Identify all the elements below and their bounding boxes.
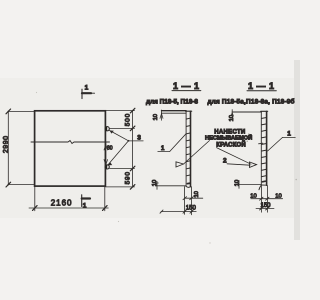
left bar hatch rungs <box>187 118 191 183</box>
svg-text:10: 10 <box>250 194 256 200</box>
left section bottom-left dimension 10 <box>156 181 187 189</box>
svg-text:для П18-5, П18-8: для П18-5, П18-8 <box>146 98 198 105</box>
left section dimension 150 <box>160 210 196 213</box>
svg-text:1: 1 <box>287 130 291 137</box>
svg-text:1: 1 <box>85 85 89 92</box>
left section top dimension 10 <box>160 110 186 120</box>
leader label 3 <box>108 130 144 165</box>
svg-text:2: 2 <box>223 157 227 164</box>
right bar hatch rungs <box>262 118 266 182</box>
left section dimension 10 lower right <box>183 197 203 200</box>
leader note to left flag <box>184 141 210 165</box>
svg-text:10: 10 <box>275 194 281 200</box>
svg-text:1 — 1: 1 — 1 <box>173 81 200 91</box>
svg-text:для П18-5а,П18-8а, П18-9б: для П18-5а,П18-8а, П18-9б <box>208 98 295 106</box>
panel outline <box>35 111 106 186</box>
section mark 1 top <box>82 89 95 98</box>
dimension 2990 <box>6 109 35 187</box>
scan specks <box>36 92 297 244</box>
right section top dimension 10 <box>231 110 261 117</box>
left section below-bar extension lines <box>185 187 192 215</box>
right section below-bar extension lines <box>261 185 267 212</box>
right section leader label 1 <box>268 138 296 152</box>
dimension chain 500/590 right <box>105 108 134 189</box>
dimension 2160 <box>29 187 108 211</box>
svg-text:КРАСКОЙ: КРАСКОЙ <box>216 140 246 148</box>
dimension 80 <box>104 142 108 167</box>
left section bar (panel edge profile) <box>186 111 192 187</box>
right section bar (panel edge profile) <box>259 111 268 189</box>
right bar mid tick <box>259 142 263 145</box>
svg-text:10: 10 <box>153 114 159 120</box>
svg-text:10: 10 <box>194 191 200 197</box>
svg-text:3: 3 <box>137 134 141 141</box>
weld flag left bar <box>176 162 184 167</box>
svg-text:590: 590 <box>124 171 131 184</box>
svg-text:НЕСМЫВАЕМОЙ: НЕСМЫВАЕМОЙ <box>205 134 252 142</box>
right section dimension 150 <box>256 207 274 210</box>
lifting loop bottom <box>105 165 109 169</box>
weld flag right bar <box>250 162 257 167</box>
right section bottom-left dimension 10 <box>238 180 262 188</box>
svg-text:2990: 2990 <box>3 136 10 154</box>
lifting loop top <box>105 127 109 131</box>
section mark 1 bottom <box>82 195 90 207</box>
svg-text:150: 150 <box>260 203 271 209</box>
svg-text:10: 10 <box>234 180 240 186</box>
svg-text:10: 10 <box>229 115 235 121</box>
svg-text:НАНЕСТИ: НАНЕСТИ <box>214 129 245 135</box>
svg-text:10: 10 <box>152 180 158 186</box>
svg-text:2160: 2160 <box>51 199 73 208</box>
svg-text:1: 1 <box>83 203 87 210</box>
svg-text:80: 80 <box>107 146 113 152</box>
leader note to right flag <box>217 148 252 165</box>
left section leader label 1 <box>158 134 186 152</box>
svg-text:150: 150 <box>186 205 197 211</box>
right section dimensions 10 10 <box>251 197 283 200</box>
svg-text:1 — 1: 1 — 1 <box>248 81 275 91</box>
label 2 with leader <box>227 164 250 165</box>
svg-text:500: 500 <box>124 113 131 126</box>
panel joint midline <box>31 141 110 144</box>
